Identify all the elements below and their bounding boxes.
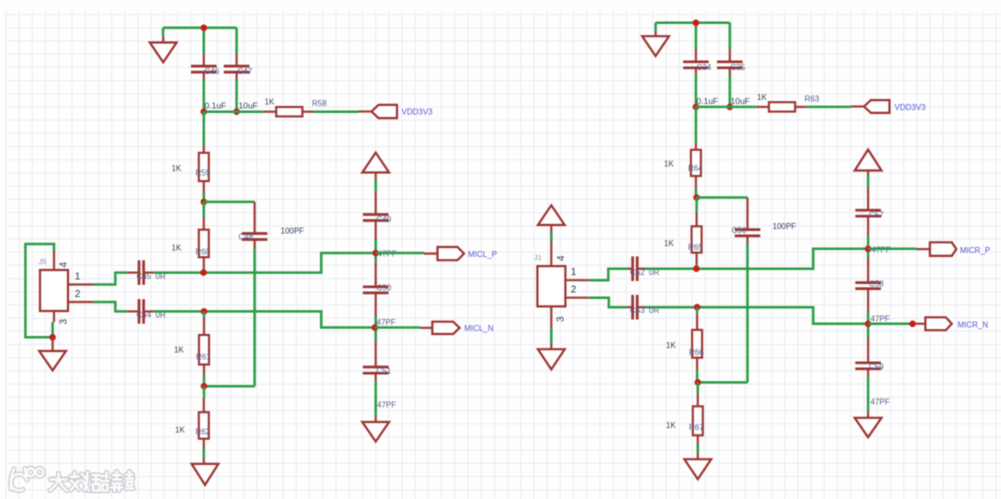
capacitor C56: [735, 198, 761, 244]
junction R59-R60 junction: [201, 199, 208, 206]
svg-text:47PF: 47PF: [377, 318, 396, 327]
capacitor C45: [127, 260, 154, 285]
svg-text:1: 1: [571, 267, 577, 278]
svg-text:C49: C49: [377, 215, 392, 224]
label C52 value: [649, 268, 659, 277]
junction R66-R67 junction: [695, 379, 702, 386]
wire R61 to junction: [203, 375, 206, 386]
wire J1 pin3 wire: [550, 327, 553, 343]
svg-text:C35: C35: [731, 63, 746, 72]
junction J5 gnd junction: [49, 334, 56, 341]
resistor R65: [692, 213, 702, 265]
junction VDD node b: [233, 108, 240, 115]
label C56 designator: [732, 226, 747, 235]
svg-text:J1: J1: [534, 253, 542, 262]
wire node to R64: [695, 107, 698, 143]
svg-text:1K: 1K: [175, 426, 185, 435]
wire row1: [154, 253, 376, 273]
svg-text:J5: J5: [39, 257, 47, 266]
pin number J5 pin 4: [59, 262, 70, 268]
pin number J1 pin 1: [571, 267, 577, 278]
svg-text:C53: C53: [630, 306, 645, 315]
wire C50 to MICL_N node: [374, 316, 377, 341]
net flag VDD3V3: [851, 100, 926, 113]
resistor R58: [264, 107, 314, 116]
svg-text:4: 4: [59, 262, 70, 268]
label R59 designator: [196, 169, 211, 178]
label R66 value: [666, 341, 676, 350]
label R60 designator: [196, 248, 211, 257]
svg-text:100PF: 100PF: [281, 227, 305, 236]
svg-text:0.1uF: 0.1uF: [205, 101, 227, 111]
label C51 value: [377, 401, 396, 410]
label C35 designator: [731, 63, 746, 72]
wire C48 down branch: [204, 248, 255, 386]
junction row1 R65 junction: [693, 265, 700, 272]
svg-text:1K: 1K: [757, 93, 767, 102]
junction top R: [693, 20, 700, 27]
wire R60 to row1: [203, 269, 206, 273]
capacitor C34: [683, 50, 709, 75]
resistor R59: [199, 146, 209, 193]
svg-text:C47: C47: [238, 67, 253, 76]
label C46 designator: [205, 67, 220, 76]
pin number J5 pin 3: [59, 319, 70, 325]
wire C59 to bottom: [867, 377, 870, 412]
svg-text:1K: 1K: [666, 421, 676, 430]
svg-text:1K: 1K: [172, 164, 182, 173]
junction MICR_N flag junction: [909, 321, 916, 328]
svg-text:R65: R65: [688, 243, 703, 252]
power flag down P5: [855, 412, 882, 438]
power flag P1: [362, 153, 389, 179]
wire R63 to VDD flag: [806, 106, 851, 109]
wire row2: [154, 311, 375, 327]
svg-text:C44: C44: [137, 311, 152, 320]
svg-text:C51: C51: [377, 367, 392, 376]
connector J1: [537, 241, 588, 327]
label C50 value: [377, 318, 396, 327]
ground G3: [192, 458, 219, 485]
ground G4: [642, 31, 669, 56]
wire MICL_N node to flag: [375, 326, 421, 329]
label C53 value: [649, 306, 659, 315]
capacitor C50: [363, 262, 389, 316]
label R67 value: [666, 421, 676, 430]
svg-text:2: 2: [571, 285, 577, 296]
svg-text:1K: 1K: [666, 341, 676, 350]
svg-text:R60: R60: [196, 248, 211, 257]
net flag MICR_P: [916, 242, 990, 256]
svg-text:C56: C56: [732, 226, 747, 235]
label C35 value: [731, 96, 750, 106]
label J5 designator: [39, 257, 47, 266]
label R67 designator: [689, 423, 704, 432]
junction VDD node R a: [693, 104, 700, 111]
resistor R63: [756, 102, 806, 111]
pin number J5 pin 2: [75, 289, 81, 300]
power flag P4: [855, 150, 882, 175]
label C57 value: [872, 246, 891, 255]
wire R59 to junction: [203, 193, 206, 202]
svg-text:VDD3V3: VDD3V3: [895, 103, 927, 112]
svg-text:47PF: 47PF: [871, 398, 890, 407]
wire junction to R65: [695, 198, 698, 213]
capacitor C58: [855, 258, 881, 312]
wire R62 to gnd: [203, 449, 206, 459]
wire C58 to MICR_N node: [867, 312, 870, 337]
wire R64 to junction: [695, 189, 698, 198]
wire C47 to node: [235, 79, 238, 112]
ground G5 (J1): [538, 343, 565, 369]
ground G2 (J5): [39, 337, 66, 370]
wire row2 to R61: [203, 311, 206, 318]
junction MICL_P node: [372, 250, 379, 257]
wire P1 lead: [374, 179, 377, 192]
label R64 value: [664, 160, 674, 169]
svg-text:C52: C52: [630, 268, 645, 277]
svg-text:R62: R62: [196, 428, 211, 437]
label R58 designator: [312, 99, 327, 108]
wire C56 down branch: [698, 244, 748, 383]
capacitor C44: [127, 299, 154, 324]
label C34 designator: [697, 63, 712, 72]
power flag down P2: [362, 416, 389, 442]
label C44 designator: [137, 311, 152, 320]
label C34 value: [697, 96, 719, 106]
label J1 designator: [534, 253, 542, 262]
junction row2 junction: [201, 308, 208, 315]
label R66 designator: [689, 348, 704, 357]
wire C46 to node: [203, 79, 206, 112]
svg-text:C59: C59: [869, 363, 884, 372]
svg-text:1K: 1K: [174, 346, 184, 355]
wire pin2 to C53: [589, 298, 627, 308]
label C45 designator: [137, 272, 152, 281]
wire R66 to junction: [696, 370, 699, 382]
junction MICR_P node: [865, 246, 872, 253]
label C47 designator: [238, 67, 253, 76]
capacitor C53: [627, 295, 645, 320]
svg-text:MICL_N: MICL_N: [464, 324, 494, 333]
wire node to R58: [204, 110, 264, 113]
svg-text:R67: R67: [689, 423, 704, 432]
label C50 designator: [377, 284, 392, 293]
power flag P3 (J1): [538, 205, 565, 232]
label C46 value: [205, 101, 227, 111]
capacitor C48: [242, 202, 268, 248]
label R63 value: [757, 93, 767, 102]
svg-text:C50: C50: [377, 284, 392, 293]
wire MICR_N node to flag wire: [868, 323, 913, 326]
wire pin2 to C44: [94, 302, 128, 311]
junction row1 R60 junction: [200, 269, 207, 276]
wire C49 to MICL_P node: [374, 240, 377, 262]
capacitor C47: [224, 54, 250, 79]
wire top node L: [163, 28, 237, 54]
capacitor C51: [363, 341, 389, 381]
wire row2 R: [645, 307, 868, 324]
junction R61-R62 junction: [201, 383, 208, 390]
wire C34 to node: [695, 75, 698, 107]
svg-text:C46: C46: [205, 67, 220, 76]
resistor R66: [692, 314, 702, 370]
label C58 value: [871, 315, 890, 324]
wire R67 to gnd: [697, 444, 700, 453]
resistor R61: [199, 318, 209, 375]
svg-text:47PF: 47PF: [871, 315, 890, 324]
svg-text:R66: R66: [689, 348, 704, 357]
junction MICR_N node: [865, 321, 872, 328]
label R59 value: [172, 164, 182, 173]
capacitor C52: [627, 256, 645, 281]
wire row1 R: [645, 249, 868, 269]
wire junction to C56 branch: [697, 196, 748, 199]
wire row2 to R66: [696, 307, 699, 314]
wire junction to R67: [697, 382, 700, 394]
label R58 value: [265, 98, 275, 107]
wire junction to R62: [203, 386, 206, 398]
label R64 designator: [688, 164, 703, 173]
svg-text:1K: 1K: [664, 239, 674, 248]
wire junction to R60: [203, 202, 206, 217]
svg-text:1: 1: [75, 272, 81, 283]
wire pin1 to C45: [94, 273, 128, 285]
label C58 designator: [869, 280, 884, 289]
svg-text:R64: R64: [688, 164, 703, 173]
watermark logo and text: [11, 468, 134, 490]
ground G6: [684, 453, 711, 479]
label C57 designator: [869, 211, 884, 220]
pin number J1 pin 4: [556, 255, 567, 261]
svg-text:47PF: 47PF: [377, 401, 396, 410]
svg-text:R61: R61: [196, 353, 211, 362]
junction R64-R65 junction: [693, 194, 700, 201]
svg-text:3: 3: [59, 319, 70, 325]
svg-text:1K: 1K: [265, 98, 275, 107]
svg-text:4: 4: [556, 255, 567, 261]
label R61 value: [174, 346, 184, 355]
junction VDD node R b: [727, 104, 734, 111]
label R65 value: [664, 239, 674, 248]
label C44 value: [156, 311, 166, 320]
svg-text:R63: R63: [805, 95, 820, 104]
wire R65 to row1: [695, 264, 698, 269]
junction MICL_N node: [372, 324, 379, 331]
wire J5 wrap to gnd: [25, 244, 54, 337]
wire node to R59: [203, 112, 206, 146]
svg-text:100PF: 100PF: [773, 222, 797, 231]
label R61 designator: [196, 353, 211, 362]
label C49 designator: [377, 215, 392, 224]
wire P4 lead: [867, 175, 870, 188]
label C53 designator: [630, 306, 645, 315]
label R63 designator: [805, 95, 820, 104]
svg-text:3: 3: [556, 316, 567, 322]
svg-text:VDD3V3: VDD3V3: [402, 108, 434, 117]
label C51 designator: [377, 367, 392, 376]
label R65 designator: [688, 243, 703, 252]
wire junction to C48 branch: [204, 201, 255, 204]
svg-text:C34: C34: [697, 63, 712, 72]
capacitor C57: [855, 188, 881, 237]
wire C51 to bottom: [374, 381, 377, 416]
wire C35 to node: [729, 75, 732, 107]
svg-text:C57: C57: [869, 211, 884, 220]
capacitor C59: [855, 337, 881, 377]
svg-text:2: 2: [75, 289, 81, 300]
net flag VDD3V3: [359, 105, 434, 118]
capacitor C35: [717, 50, 743, 75]
connector J5: [40, 251, 94, 322]
svg-text:C45: C45: [137, 272, 152, 281]
junction row2 junction R: [694, 304, 701, 311]
wire pin1 to C52: [589, 269, 627, 281]
net flag MICL_N: [421, 322, 494, 334]
resistor R60: [199, 217, 209, 269]
svg-text:10uF: 10uF: [239, 101, 258, 111]
label R62 designator: [196, 428, 211, 437]
junction top L: [201, 25, 208, 32]
wire R58 to VDD flag: [314, 110, 359, 113]
pin number J1 pin 2: [571, 285, 577, 296]
label C47 value: [239, 101, 258, 111]
svg-text:MICR_P: MICR_P: [960, 246, 990, 255]
label C52 designator: [630, 268, 645, 277]
wire MICL_P node to flag: [376, 252, 424, 255]
junction VDD node a: [201, 108, 208, 115]
svg-text:R58: R58: [312, 99, 327, 108]
resistor R62: [199, 398, 209, 449]
wire top node R: [656, 23, 730, 50]
capacitor C49: [363, 192, 389, 241]
svg-text:C48: C48: [239, 233, 254, 242]
label C59 value: [871, 398, 890, 407]
wire J1 pin4 wire: [550, 232, 553, 241]
net flag MICR_N: [916, 317, 988, 330]
label C49 value: [378, 250, 397, 259]
net flag MICL_P: [424, 247, 497, 260]
label C45 value: [156, 272, 166, 281]
label R62 value: [175, 426, 185, 435]
svg-text:1K: 1K: [664, 160, 674, 169]
wire node to R63: [696, 106, 756, 109]
resistor R64: [691, 143, 701, 189]
svg-text:10uF: 10uF: [731, 96, 750, 106]
svg-text:1K: 1K: [172, 244, 182, 253]
wire C57 to MICR_P node: [867, 236, 870, 258]
pin number J1 pin 3: [556, 316, 567, 322]
svg-text:C58: C58: [869, 280, 884, 289]
svg-text:MICR_N: MICR_N: [958, 321, 989, 330]
wire MICR_P node to flag: [868, 248, 916, 251]
resistor R67: [693, 394, 703, 444]
svg-text:0.1uF: 0.1uF: [697, 96, 719, 106]
label R60 value: [172, 244, 182, 253]
label C59 designator: [869, 363, 884, 372]
svg-text:R59: R59: [196, 169, 211, 178]
svg-text:MICL_P: MICL_P: [468, 250, 497, 259]
capacitor C46: [191, 54, 217, 79]
pin number J5 pin 1: [75, 272, 81, 283]
label C48 designator: [239, 233, 254, 242]
ground G1: [150, 36, 177, 63]
label C56 value: [773, 222, 797, 231]
label C48 value: [281, 227, 305, 236]
